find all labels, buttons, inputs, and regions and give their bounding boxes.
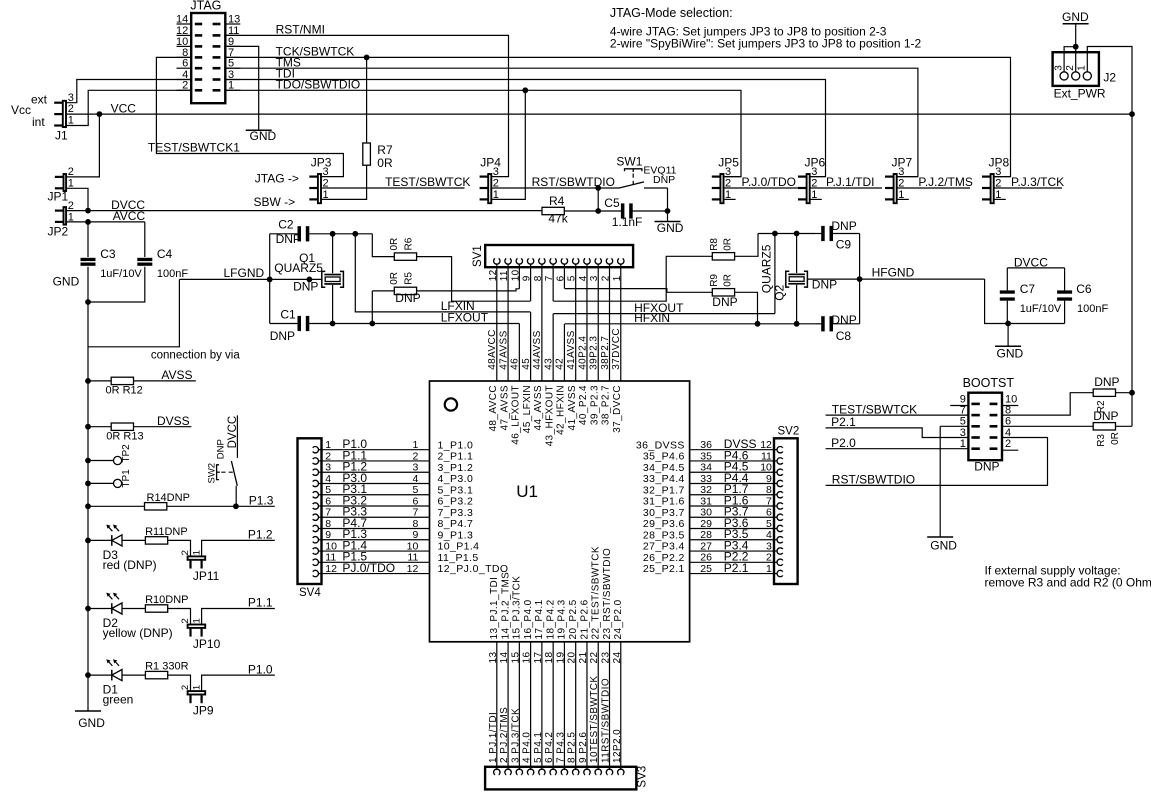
- note external supply: [985, 564, 1151, 590]
- svg-text:33: 33: [700, 473, 712, 485]
- wire LFXIN: [355, 234, 530, 313]
- wire JP7 pin 1 stub: [897, 198, 909, 200]
- svg-text:LFGND: LFGND: [224, 266, 265, 280]
- svg-text:TDO/SBWTDIO: TDO/SBWTDIO: [276, 78, 361, 92]
- svg-text:11_P1.5: 11_P1.5: [438, 552, 479, 564]
- U1 top pin labels (48_AVCC..37_DVCC): [488, 385, 623, 446]
- svg-text:28_P3.5: 28_P3.5: [643, 529, 685, 541]
- svg-text:18: 18: [544, 652, 555, 664]
- svg-text:3: 3: [766, 540, 772, 552]
- svg-text:3: 3: [412, 462, 418, 474]
- svg-text:P1.1: P1.1: [248, 596, 273, 610]
- svg-text:42_HFXIN: 42_HFXIN: [556, 385, 567, 435]
- connector SV1 (12-pin header): [472, 245, 633, 281]
- connector SV2 (12-pin header): [774, 426, 799, 585]
- ground GND (C5/SW1): [655, 211, 684, 235]
- svg-text:PJ.0/TDO: PJ.0/TDO: [342, 561, 395, 575]
- svg-text:10: 10: [1005, 393, 1017, 405]
- svg-text:1 PJ.1/TDI: 1 PJ.1/TDI: [488, 712, 499, 763]
- wire SV1 columns to U1 top pins: [497, 267, 621, 381]
- svg-text:1: 1: [191, 685, 202, 690]
- wire HFXOUT: [553, 234, 775, 315]
- svg-text:DNP: DNP: [974, 460, 999, 474]
- svg-text:1: 1: [766, 563, 772, 575]
- svg-text:JP11: JP11: [193, 569, 220, 583]
- svg-text:Ext_PWR: Ext_PWR: [1054, 87, 1106, 101]
- svg-text:GND: GND: [78, 716, 105, 730]
- svg-text:JP4: JP4: [480, 155, 501, 169]
- svg-text:yellow (DNP): yellow (DNP): [103, 626, 173, 640]
- svg-text:36: 36: [700, 439, 712, 451]
- wire P.J.0/TDO (JP5 pin 2): [724, 175, 801, 189]
- svg-text:DNP: DNP: [276, 232, 301, 246]
- svg-text:0R: 0R: [389, 272, 400, 285]
- svg-text:14: 14: [176, 13, 188, 25]
- capacitor C7 1uF/10V: [1000, 268, 1062, 324]
- wire TEST/SBWTCK (JP3 pin 2): [322, 175, 471, 189]
- svg-text:4: 4: [766, 529, 772, 541]
- svg-text:P.J.2/TMS: P.J.2/TMS: [918, 175, 972, 189]
- svg-text:10: 10: [325, 540, 337, 552]
- wire JP5 pin 3 riser: [724, 176, 741, 178]
- svg-text:P2.1: P2.1: [831, 415, 856, 429]
- jumper JP8: [982, 155, 1010, 203]
- svg-text:JP6: JP6: [805, 155, 826, 169]
- resistor R3 0R: [1002, 409, 1132, 447]
- svg-text:36_DVSS: 36_DVSS: [636, 439, 685, 451]
- svg-text:12: 12: [760, 439, 772, 451]
- svg-text:SV2: SV2: [778, 426, 800, 438]
- svg-text:22_TEST/SBWTCK: 22_TEST/SBWTCK: [591, 546, 602, 639]
- svg-text:21_P2.6: 21_P2.6: [579, 599, 590, 639]
- svg-text:1: 1: [68, 115, 74, 127]
- svg-text:7: 7: [325, 507, 331, 519]
- svg-text:1: 1: [493, 189, 499, 201]
- wire JP8 pin 3 riser: [994, 176, 1010, 178]
- svg-text:26_P2.2: 26_P2.2: [643, 552, 685, 564]
- SV3 net labels (1 PJ.1/TDI..12 P2.0): [488, 676, 623, 763]
- svg-text:2-wire "SpyBiWire": Set jumper: 2-wire "SpyBiWire": Set jumpers JP3 to J…: [610, 37, 922, 51]
- svg-text:12P2.0: 12P2.0: [612, 729, 623, 763]
- svg-text:C4: C4: [157, 247, 173, 261]
- svg-text:3: 3: [68, 92, 74, 104]
- svg-text:6: 6: [412, 495, 418, 507]
- svg-text:QUARZ5: QUARZ5: [760, 244, 774, 293]
- svg-text:2: 2: [766, 552, 772, 564]
- svg-text:JP5: JP5: [718, 155, 739, 169]
- svg-text:DNP: DNP: [712, 295, 737, 309]
- wire JTAG pin 2 to J1 pin 1 (int): [67, 90, 192, 125]
- jumper JP4 (RST select): [480, 155, 502, 203]
- svg-text:R6: R6: [403, 237, 414, 250]
- svg-text:C3: C3: [100, 247, 116, 261]
- svg-text:J2: J2: [1103, 70, 1116, 84]
- svg-text:JP8: JP8: [989, 155, 1010, 169]
- wires and net labels SV4 to U1 (P1.0..PJ.0/TDO): [322, 437, 430, 575]
- svg-text:1uF/10V: 1uF/10V: [1020, 303, 1062, 315]
- svg-text:P2.1: P2.1: [724, 561, 749, 575]
- svg-text:TP2: TP2: [121, 444, 132, 463]
- svg-text:2: 2: [1065, 65, 1076, 71]
- jumper JP6: [798, 155, 826, 203]
- resistor R8 0R: [553, 234, 758, 302]
- svg-text:0R R13: 0R R13: [106, 431, 143, 443]
- svg-text:U1: U1: [516, 482, 538, 501]
- wire JTAG pin 4 to J1 pin 3 (ext): [67, 80, 192, 103]
- connector SV4 (12-pin header): [298, 438, 322, 599]
- ground GND (JTAG pin 9): [225, 46, 276, 143]
- svg-text:DNP: DNP: [831, 219, 856, 233]
- wire JP1 pin 1 to DVCC junction: [67, 188, 88, 210]
- svg-text:16: 16: [522, 652, 533, 664]
- svg-text:11: 11: [407, 552, 418, 564]
- svg-text:32_P1.7: 32_P1.7: [643, 484, 685, 496]
- svg-text:JP1: JP1: [48, 190, 69, 204]
- wire JP7 pin 3 riser: [897, 176, 918, 178]
- svg-text:13_PJ.1_TDI: 13_PJ.1_TDI: [489, 577, 500, 640]
- svg-text:SBW ->: SBW ->: [254, 195, 296, 209]
- svg-text:SV1: SV1: [472, 245, 484, 267]
- testpoint TP1: [85, 469, 132, 488]
- svg-text:11: 11: [325, 552, 336, 564]
- svg-text:47k: 47k: [548, 212, 568, 226]
- crystal Q1 QUARZ5 DNP: [270, 234, 344, 324]
- svg-text:18_P4.2: 18_P4.2: [545, 599, 556, 639]
- svg-text:19: 19: [555, 652, 566, 664]
- connector J1 (Vcc select ext/int): [11, 92, 74, 142]
- capacitor C5 1.1nF: [604, 196, 670, 229]
- svg-text:1: 1: [412, 439, 418, 451]
- svg-text:21: 21: [578, 652, 589, 664]
- connector BOOTST DNP: [950, 376, 1018, 474]
- ground GND (left rail): [53, 274, 106, 729]
- ground GND (J2): [1062, 10, 1089, 72]
- svg-text:SV3: SV3: [636, 766, 648, 788]
- connector J2 Ext_PWR: [1053, 52, 1117, 100]
- svg-text:R7: R7: [377, 143, 393, 157]
- svg-text:DNP: DNP: [831, 313, 856, 327]
- svg-text:23_RST/SBWTDIO: 23_RST/SBWTDIO: [602, 548, 613, 640]
- svg-text:16_P4.0: 16_P4.0: [523, 599, 534, 639]
- svg-text:P.J.0/TDO: P.J.0/TDO: [742, 175, 796, 189]
- svg-text:AVCC: AVCC: [113, 209, 146, 223]
- svg-text:2: 2: [1005, 438, 1011, 450]
- wire TMS (JTAG pin 5 to JP7 pin 3): [225, 55, 918, 176]
- wire RST/SBWTDIO (JP4 pin 2 to SW1): [492, 175, 619, 211]
- capacitor C4 100nF: [88, 222, 188, 302]
- svg-text:4 P4.0: 4 P4.0: [522, 732, 533, 763]
- svg-text:1: 1: [1077, 65, 1088, 71]
- svg-text:9: 9: [766, 473, 772, 485]
- wire JP5 pin 1 stub: [724, 198, 736, 200]
- svg-text:DNP: DNP: [270, 329, 295, 343]
- svg-text:4: 4: [412, 473, 418, 485]
- svg-text:28: 28: [700, 529, 712, 541]
- svg-text:9 P2.6: 9 P2.6: [578, 732, 589, 763]
- wire connection by via (GND to LFGND): [88, 279, 240, 361]
- svg-text:GND: GND: [1062, 10, 1089, 24]
- svg-text:17: 17: [533, 652, 544, 664]
- svg-text:10: 10: [407, 540, 419, 552]
- capacitor C6 100nF: [1057, 268, 1108, 324]
- svg-text:HFXIN: HFXIN: [634, 311, 670, 325]
- wire LFXIN top rail: [309, 231, 372, 237]
- svg-text:19_P4.3: 19_P4.3: [557, 599, 568, 639]
- svg-text:JP3: JP3: [311, 155, 332, 169]
- svg-text:15: 15: [510, 652, 521, 664]
- svg-text:JP10: JP10: [193, 637, 221, 651]
- svg-text:red (DNP): red (DNP): [103, 558, 157, 572]
- svg-text:9_P1.3: 9_P1.3: [438, 529, 474, 541]
- svg-text:C5: C5: [604, 196, 620, 210]
- svg-text:DVSS: DVSS: [157, 414, 190, 428]
- svg-text:15_PJ.3/TCK: 15_PJ.3/TCK: [512, 576, 523, 640]
- resistor R4 47k: [542, 194, 621, 226]
- svg-text:8: 8: [412, 518, 418, 530]
- svg-text:P1.2: P1.2: [248, 528, 273, 542]
- svg-text:40_P2.4: 40_P2.4: [578, 385, 589, 425]
- resistor R2 DNP: [1093, 375, 1135, 413]
- svg-text:SW1: SW1: [616, 154, 642, 168]
- capacitor C1 DNP: [270, 307, 310, 343]
- svg-text:JP7: JP7: [892, 155, 913, 169]
- svg-text:5 P4.1: 5 P4.1: [533, 732, 544, 763]
- wire TCK/SBWTCK (JTAG pin 7 to JP8 pin 3): [225, 45, 1010, 177]
- svg-text:RST/SBWTDIO: RST/SBWTDIO: [532, 175, 615, 189]
- svg-text:DNP: DNP: [395, 291, 420, 305]
- svg-text:RST/SBWTDIO: RST/SBWTDIO: [832, 473, 915, 487]
- svg-text:33_P4.4: 33_P4.4: [643, 473, 685, 485]
- svg-text:12: 12: [407, 563, 419, 575]
- svg-text:34_P4.5: 34_P4.5: [643, 462, 685, 474]
- svg-text:12: 12: [325, 563, 337, 575]
- svg-text:R4: R4: [549, 194, 565, 208]
- svg-text:JTAG ->: JTAG ->: [255, 171, 299, 185]
- wire P.J.2/TMS (JP7 pin 2): [897, 175, 973, 189]
- svg-text:24: 24: [612, 652, 623, 664]
- svg-text:R5: R5: [403, 272, 414, 285]
- svg-text:1.1nF: 1.1nF: [612, 215, 643, 229]
- svg-text:Q2: Q2: [773, 284, 787, 300]
- capacitor C3 1uF/10V: [81, 222, 143, 302]
- wire RST/NMI (JTAG pin 11 to JP4 pin 3): [225, 23, 508, 177]
- switch SW2 DNP (DVCC to P1.3): [207, 415, 240, 506]
- svg-text:P1.3: P1.3: [249, 493, 274, 507]
- wire HFXIN rail: [565, 311, 815, 327]
- svg-text:3_P1.2: 3_P1.2: [438, 462, 474, 474]
- svg-text:P1.0: P1.0: [248, 662, 273, 676]
- svg-text:27_P3.4: 27_P3.4: [643, 541, 685, 553]
- LED D1 green with resistor R1 330R and jumper JP9 (P1.0): [85, 659, 275, 718]
- svg-text:20: 20: [567, 652, 578, 664]
- svg-text:9: 9: [960, 393, 966, 405]
- wire TDO/SBWTDIO (JTAG pin 1 to JP5 pin 3 and JP4 pin 1): [225, 78, 741, 200]
- svg-text:C8: C8: [836, 329, 852, 343]
- svg-text:J1: J1: [55, 128, 68, 142]
- svg-text:6 P4.2: 6 P4.2: [544, 732, 555, 763]
- svg-text:44_AVSS: 44_AVSS: [533, 385, 544, 430]
- wire AVCC: [67, 209, 146, 225]
- svg-text:31: 31: [700, 495, 712, 507]
- jumper JP2: [48, 200, 74, 239]
- wire VCC (long power rail): [67, 101, 1135, 177]
- jumper JP7: [885, 155, 913, 203]
- svg-text:22: 22: [589, 652, 600, 664]
- svg-text:C6: C6: [1076, 282, 1092, 296]
- svg-text:2: 2: [412, 450, 418, 462]
- resistor R14 DNP (P1.3): [85, 492, 275, 510]
- resistor R5 0R DNP: [372, 272, 519, 324]
- svg-text:BOOTST: BOOTST: [963, 376, 1015, 390]
- svg-text:1: 1: [191, 550, 202, 555]
- wire P2.1 (to BOOTST pin 3): [826, 415, 969, 438]
- wire TEST/SBWTCK (to BOOTST pin 7): [826, 402, 969, 416]
- svg-text:P.J.1/TDI: P.J.1/TDI: [826, 175, 874, 189]
- jumper JP1: [48, 166, 74, 203]
- IC U1 (MSP430 MCU): [430, 381, 690, 642]
- svg-text:R3: R3: [1096, 434, 1107, 447]
- svg-text:C9: C9: [836, 238, 852, 252]
- wires U1 bottom pins to SV3: [497, 642, 621, 767]
- svg-text:1uF/10V: 1uF/10V: [100, 268, 142, 280]
- svg-text:12_PJ.0_TDO: 12_PJ.0_TDO: [438, 563, 509, 575]
- svg-text:31_P1.6: 31_P1.6: [643, 496, 685, 508]
- svg-text:11: 11: [761, 450, 772, 462]
- wire JP6 pin 3 riser: [810, 176, 825, 178]
- svg-text:10: 10: [760, 462, 772, 474]
- svg-text:0R: 0R: [723, 274, 734, 287]
- svg-text:6_P3.2: 6_P3.2: [438, 496, 474, 508]
- svg-text:GND: GND: [250, 129, 277, 143]
- svg-text:GND: GND: [930, 539, 957, 553]
- svg-text:43_HFXOUT: 43_HFXOUT: [544, 385, 555, 446]
- svg-text:GND: GND: [657, 221, 684, 235]
- svg-text:9: 9: [325, 529, 331, 541]
- svg-text:32: 32: [700, 484, 712, 496]
- svg-text:7 P4.3: 7 P4.3: [555, 732, 566, 763]
- wire DVCC (long rail to R4): [67, 198, 542, 214]
- svg-text:25_P2.1: 25_P2.1: [643, 563, 685, 575]
- svg-text:2: 2: [180, 550, 191, 555]
- svg-text:remove R3 and add R2 (0 Ohm)!: remove R3 and add R2 (0 Ohm)!: [985, 576, 1151, 590]
- svg-text:2: 2: [68, 103, 74, 115]
- svg-text:2: 2: [325, 450, 331, 462]
- svg-text:1_P1.0: 1_P1.0: [438, 439, 474, 451]
- svg-text:8 P2.5: 8 P2.5: [567, 732, 578, 763]
- wire BOOTST pin 8 to R2: [1002, 393, 1093, 415]
- svg-text:3: 3: [1054, 65, 1065, 71]
- resistor R9 0R DNP: [565, 274, 758, 324]
- wire TDI (JTAG pin 3 to JP6 pin 3): [225, 67, 825, 177]
- U1 left pin labels (1_P1.0..12_PJ.0_TDO): [438, 439, 509, 575]
- svg-text:4_P3.0: 4_P3.0: [438, 473, 474, 485]
- svg-text:1: 1: [191, 618, 202, 623]
- svg-text:3 PJ.3/TCK: 3 PJ.3/TCK: [510, 708, 521, 763]
- capacitor C9 DNP: [815, 219, 860, 252]
- svg-text:Vcc: Vcc: [11, 103, 31, 117]
- net label DVCC (top right): [1007, 256, 1064, 270]
- svg-text:R9: R9: [709, 274, 720, 287]
- svg-text:30: 30: [700, 507, 712, 519]
- svg-text:GND: GND: [997, 347, 1024, 361]
- svg-text:8_P4.7: 8_P4.7: [438, 518, 474, 530]
- svg-text:0R: 0R: [1110, 432, 1121, 445]
- svg-text:R14DNP: R14DNP: [147, 492, 190, 504]
- svg-text:45_LFXIN: 45_LFXIN: [522, 385, 533, 433]
- svg-text:2: 2: [180, 685, 191, 690]
- svg-text:QUARZ5: QUARZ5: [274, 261, 323, 275]
- svg-text:5: 5: [412, 484, 418, 496]
- resistor R7 0R (TCK to JP3 pin 1): [322, 57, 393, 199]
- svg-text:R1 330R: R1 330R: [145, 661, 188, 673]
- connector JTAG (14-pin header): [176, 0, 240, 103]
- svg-text:JP2: JP2: [48, 225, 69, 239]
- svg-text:DNP: DNP: [215, 439, 226, 459]
- svg-text:2 PJ.2/TMS: 2 PJ.2/TMS: [499, 707, 510, 763]
- wire JP6 pin 1 stub: [810, 198, 822, 200]
- svg-text:10_P1.4: 10_P1.4: [438, 541, 480, 553]
- svg-text:100nF: 100nF: [157, 268, 188, 280]
- svg-text:DNP: DNP: [812, 277, 837, 291]
- svg-text:47_AVSS: 47_AVSS: [499, 385, 510, 430]
- connector SV3 (12-pin header): [485, 766, 648, 790]
- svg-text:SW2: SW2: [207, 463, 218, 484]
- svg-text:41_AVSS: 41_AVSS: [567, 385, 578, 430]
- svg-text:27: 27: [700, 540, 712, 552]
- wire BOOTST pin 5 to GND: [927, 426, 968, 552]
- svg-text:8: 8: [325, 518, 331, 530]
- wire LFGND rail (C2/C1 left): [269, 234, 271, 324]
- svg-text:P2.0: P2.0: [831, 436, 856, 450]
- svg-text:R8: R8: [709, 238, 720, 251]
- svg-text:JP9: JP9: [193, 704, 214, 718]
- svg-text:37_DVCC: 37_DVCC: [612, 385, 623, 433]
- svg-text:7: 7: [412, 507, 418, 519]
- wire RST/SBWTDIO (to BOOTST pin 4): [826, 438, 1048, 487]
- svg-text:green: green: [103, 693, 134, 707]
- svg-text:14: 14: [499, 652, 510, 664]
- svg-text:10TEST/SBWTCK: 10TEST/SBWTCK: [589, 676, 600, 763]
- svg-text:13: 13: [488, 652, 499, 664]
- svg-text:C7: C7: [1020, 282, 1036, 296]
- svg-text:3: 3: [325, 462, 331, 474]
- svg-text:23: 23: [601, 652, 612, 664]
- wire LFXOUT rail: [309, 311, 519, 327]
- wire VCC riser (right edge): [1131, 114, 1133, 426]
- svg-text:JTAG: JTAG: [190, 0, 221, 13]
- svg-text:HFGND: HFGND: [872, 266, 915, 280]
- svg-text:17_P4.1: 17_P4.1: [534, 599, 545, 639]
- svg-text:2: 2: [180, 618, 191, 623]
- LED D3 red (DNP) with resistor R11 DNP and jumper JP11 (P1.2): [85, 525, 275, 584]
- svg-text:JTAG-Mode selection:: JTAG-Mode selection:: [610, 6, 733, 20]
- U1 bottom pin numbers (13..24): [488, 652, 623, 664]
- svg-text:int: int: [32, 115, 45, 129]
- svg-text:29_P3.6: 29_P3.6: [643, 518, 685, 530]
- svg-text:DNP: DNP: [1093, 409, 1118, 423]
- svg-text:13: 13: [228, 13, 240, 25]
- svg-text:100nF: 100nF: [1077, 303, 1108, 315]
- svg-text:14_PJ.2_TMS: 14_PJ.2_TMS: [500, 572, 511, 640]
- svg-text:TEST/SBWTCK1: TEST/SBWTCK1: [148, 140, 240, 154]
- svg-text:34: 34: [700, 462, 712, 474]
- svg-text:0R: 0R: [389, 238, 400, 251]
- svg-text:ext: ext: [31, 92, 48, 106]
- svg-text:LFXIN: LFXIN: [441, 299, 475, 313]
- wire JP8 pin 1 stub: [994, 198, 1006, 200]
- svg-text:7_P3.3: 7_P3.3: [438, 507, 474, 519]
- svg-text:0R R12: 0R R12: [106, 384, 143, 396]
